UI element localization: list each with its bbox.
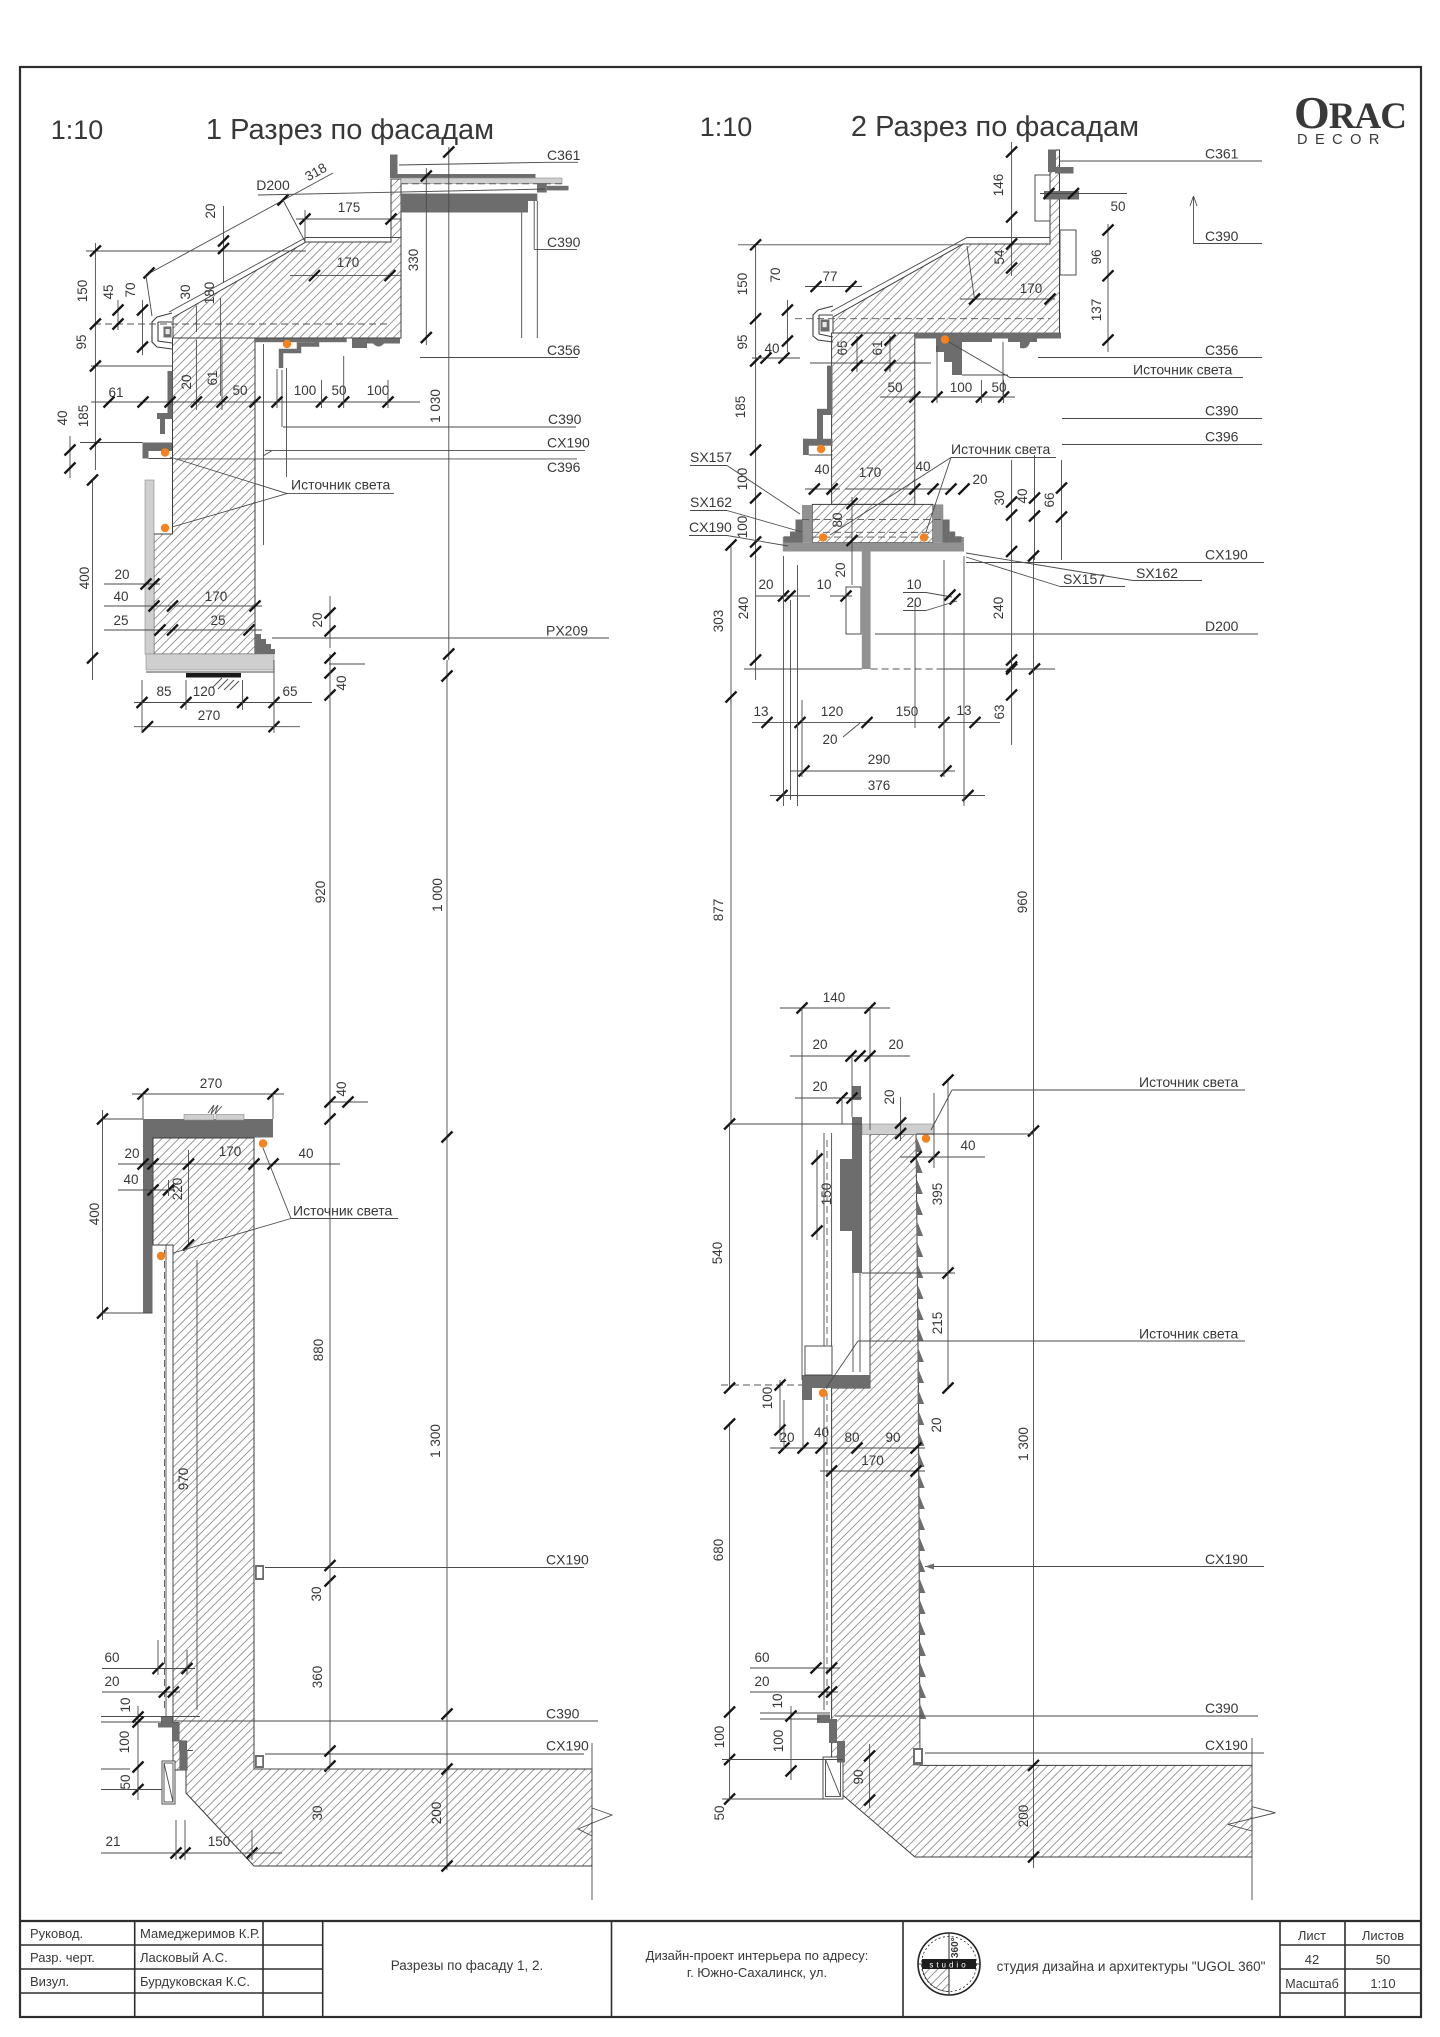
fig2 SX left end blocks xyxy=(796,520,803,543)
svg-text:20: 20 xyxy=(754,1674,769,1689)
svg-text:Источник света: Источник света xyxy=(1133,362,1233,378)
fig1 soffit dark band C390 xyxy=(401,194,528,213)
fig2 crown C361 dark profile xyxy=(1048,150,1056,173)
fig4 dark stub above shelf xyxy=(852,1086,861,1100)
fig1 ext lines soffit dims xyxy=(276,369,278,408)
svg-text:50: 50 xyxy=(991,380,1006,395)
svg-text:20: 20 xyxy=(812,1037,827,1052)
fig1 LED dot on ceiling molding xyxy=(283,340,291,348)
fig4 dim 40 xyxy=(900,1156,985,1158)
svg-text:C356: C356 xyxy=(1205,342,1239,358)
fig4 left panel thin lines xyxy=(823,1133,825,1710)
studio logo circle xyxy=(918,1933,980,1995)
svg-text:63: 63 xyxy=(992,704,1007,719)
fig3 dim 40 left xyxy=(118,1189,175,1191)
fig2 bottom dim chain 13/120/150/13 xyxy=(752,721,1000,723)
fig1 floor slab light gray xyxy=(146,654,274,670)
fig2 dim 240 left xyxy=(755,556,757,680)
svg-text:2 Разрез по фасадам: 2 Разрез по фасадам xyxy=(851,111,1139,143)
fig3 insulation squiggle top xyxy=(208,1105,222,1114)
fig2 coping end bracket xyxy=(813,306,833,342)
svg-text:220: 220 xyxy=(170,1178,185,1201)
studio logo band with studio text xyxy=(922,1959,976,1969)
fig4 wall left edge line xyxy=(869,1135,871,1389)
fig4 right dims 1300/200/960 line xyxy=(1033,1131,1035,1868)
molding C356 fig2 right piece xyxy=(1008,336,1037,348)
svg-text:40: 40 xyxy=(55,410,70,425)
svg-text:100: 100 xyxy=(771,1730,786,1753)
svg-text:42: 42 xyxy=(1305,1952,1319,1967)
svg-text:20: 20 xyxy=(179,374,194,389)
svg-text:20: 20 xyxy=(758,577,773,592)
fig2 hatched wall mass xyxy=(832,333,915,504)
fig3 dim 270 top xyxy=(132,1093,284,1095)
fig4 LED dot under shelf xyxy=(922,1134,930,1142)
dim 40 fig1 xyxy=(104,605,262,607)
svg-text:C396: C396 xyxy=(1205,429,1239,445)
dim 40 fig2 left xyxy=(752,357,800,359)
fig1 LED dot on ledge xyxy=(161,524,169,532)
svg-text:303: 303 xyxy=(711,610,726,633)
svg-text:100: 100 xyxy=(367,383,390,398)
svg-text:40: 40 xyxy=(915,459,930,474)
fig3 right dims 1300/200 xyxy=(446,1137,448,1870)
svg-text:40: 40 xyxy=(814,1425,829,1440)
svg-text:Визул.: Визул. xyxy=(30,1974,69,1989)
svg-text:45: 45 xyxy=(101,284,116,299)
svg-text:66: 66 xyxy=(1042,492,1057,507)
fig1 insulation squiggle xyxy=(212,678,239,690)
svg-text:25: 25 xyxy=(113,613,128,628)
fig1 slope dim 318 xyxy=(148,173,333,274)
svg-text:20: 20 xyxy=(929,1417,944,1432)
svg-text:30: 30 xyxy=(178,284,193,299)
fig4 dark vertical panel xyxy=(852,1117,862,1273)
fig4 dim 140 xyxy=(780,1007,890,1009)
fig1 leader C390 lower xyxy=(283,426,576,428)
fig2 extension line top horizontal xyxy=(738,244,963,246)
svg-text:CX190: CX190 xyxy=(1205,1737,1248,1753)
svg-text:95: 95 xyxy=(74,334,89,349)
svg-text:400: 400 xyxy=(77,567,92,590)
svg-text:студия дизайна и архитектуры ": студия дизайна и архитектуры "UGOL 360" xyxy=(997,1959,1266,1974)
fig2 CX190 channel left wall xyxy=(802,505,812,543)
svg-text:C361: C361 xyxy=(1205,146,1239,162)
svg-text:400: 400 xyxy=(87,1203,102,1226)
svg-text:Источник света: Источник света xyxy=(291,477,391,493)
fig3 bottom dims 21/150 xyxy=(101,1852,282,1854)
fig2 LED dot on left profile xyxy=(817,445,825,453)
fig2 soffit dim chain 50/100/50 xyxy=(880,396,1015,398)
fig2 CX190 channel bottom bar xyxy=(783,543,964,552)
svg-text:C390: C390 xyxy=(1205,1700,1239,1716)
fig2 white niche box xyxy=(846,587,861,634)
fig3 hatched wall and floor mass xyxy=(153,1138,592,1866)
svg-text:150: 150 xyxy=(819,1183,834,1206)
svg-text:60: 60 xyxy=(754,1650,769,1665)
title block row lines left xyxy=(20,1944,323,1946)
fig2 left facade profile steps xyxy=(827,366,833,410)
svg-text:395: 395 xyxy=(930,1183,945,1206)
svg-text:20: 20 xyxy=(310,612,325,627)
dim 45 fig1 xyxy=(117,300,119,330)
fig1 LED ledge line xyxy=(154,533,173,535)
fig1 left facade profile bottom bar C396 xyxy=(143,443,173,452)
fig2 soffit panel lines xyxy=(1002,342,1004,398)
svg-text:100: 100 xyxy=(735,516,750,539)
svg-text:40: 40 xyxy=(113,589,128,604)
molding C356 fig2 left piece xyxy=(936,336,992,375)
fig4 dark 150 block xyxy=(840,1159,852,1231)
fig2 dim 240 right xyxy=(1011,556,1013,680)
dim 170 fig2 mid xyxy=(845,488,950,490)
svg-text:680: 680 xyxy=(711,1539,726,1562)
fig3 light gray pads on cap xyxy=(184,1115,214,1121)
fig3 right rotated dims 30/360/30/880 xyxy=(325,1560,336,1571)
svg-text:Источник света: Источник света xyxy=(1139,1326,1239,1342)
fig4 LED dot at soffit xyxy=(819,1389,827,1397)
svg-text:70: 70 xyxy=(123,282,138,297)
fig1 ext lines for 318 xyxy=(146,276,152,316)
fig2 dim 290 xyxy=(790,770,955,772)
svg-text:C390: C390 xyxy=(548,411,582,427)
svg-text:D200: D200 xyxy=(1205,618,1239,634)
dim 170 fig2 xyxy=(960,298,1055,300)
svg-text:80: 80 xyxy=(830,512,845,527)
svg-text:1 000: 1 000 xyxy=(430,878,445,912)
fig1 left facade profile jog xyxy=(157,413,173,419)
fig1 light gray backing strip left xyxy=(145,480,154,654)
dim 77 fig2 xyxy=(805,286,862,288)
studio logo crosshair xyxy=(948,1933,950,1995)
svg-text:CX190: CX190 xyxy=(546,1552,589,1568)
fig2 SX right end blocks xyxy=(943,520,950,543)
fig1 hatched parapet/roof slab xyxy=(173,179,401,338)
fig1 skirting steps PX209 xyxy=(255,634,275,654)
fig4 dim 540 xyxy=(729,1124,731,1388)
svg-text:Бурдуковская К.С.: Бурдуковская К.С. xyxy=(140,1974,250,1989)
svg-text:CX190: CX190 xyxy=(689,519,732,535)
fig1 leader D200 xyxy=(258,189,545,195)
fig1 D200 end dark block xyxy=(537,183,547,193)
svg-text:90: 90 xyxy=(851,1769,866,1784)
svg-text:13: 13 xyxy=(753,704,768,719)
fig2 hatched roof slab xyxy=(833,150,1060,333)
svg-text:Лист: Лист xyxy=(1298,1928,1326,1943)
svg-text:Дизайн-проект интерьера по адр: Дизайн-проект интерьера по адресу: xyxy=(646,1948,869,1963)
svg-text:50: 50 xyxy=(118,1774,133,1789)
fig1 left wall face line xyxy=(172,348,174,371)
fig1 dashed centerline of coping xyxy=(94,323,388,325)
svg-text:30: 30 xyxy=(309,1586,324,1601)
svg-text:100: 100 xyxy=(117,1731,132,1754)
fig1 dim 400 vertical xyxy=(92,480,94,680)
dim 96 fig2 xyxy=(1107,224,1109,352)
svg-text:Источник света: Источник света xyxy=(293,1203,393,1219)
svg-text:970: 970 xyxy=(176,1468,191,1491)
svg-text:50: 50 xyxy=(232,383,247,398)
svg-text:Масштаб: Масштаб xyxy=(1285,1977,1338,1991)
svg-text:185: 185 xyxy=(76,405,91,428)
fig1 window head box outlines xyxy=(522,201,538,338)
svg-text:240: 240 xyxy=(736,597,751,620)
fig2 dashed construction lines xyxy=(802,519,943,521)
svg-text:170: 170 xyxy=(1020,281,1043,296)
svg-text:studio: studio xyxy=(929,1961,968,1970)
fig1 left facade profile lower strip xyxy=(160,419,165,434)
svg-text:20: 20 xyxy=(906,595,921,610)
svg-text:20: 20 xyxy=(812,1079,827,1094)
fig2 channel stem xyxy=(862,552,871,670)
svg-text:540: 540 xyxy=(710,1242,725,1265)
svg-text:170: 170 xyxy=(337,255,360,270)
fig3 CX190 box bottom xyxy=(255,1755,264,1768)
svg-text:г. Южно-Сахалинск, ул.: г. Южно-Сахалинск, ул. xyxy=(687,1965,827,1980)
svg-text:1 030: 1 030 xyxy=(428,389,443,423)
svg-text:80: 80 xyxy=(844,1430,859,1445)
fig1 coping glazing channel dark square xyxy=(164,327,172,338)
svg-text:140: 140 xyxy=(823,990,846,1005)
svg-text:61: 61 xyxy=(205,370,220,385)
svg-text:920: 920 xyxy=(313,881,328,904)
fig2 ceiling dark band xyxy=(915,333,1061,339)
svg-text:SX162: SX162 xyxy=(1136,565,1178,581)
svg-text:20: 20 xyxy=(882,1089,897,1104)
fig1 ext line y366 xyxy=(91,365,173,367)
svg-text:65: 65 xyxy=(282,684,297,699)
svg-text:40: 40 xyxy=(1015,488,1030,503)
svg-text:150: 150 xyxy=(75,280,90,303)
fig3 top dim chain 20/170/40 xyxy=(118,1163,340,1165)
svg-text:77: 77 xyxy=(822,269,837,284)
svg-text:170: 170 xyxy=(861,1453,884,1468)
svg-text:50: 50 xyxy=(1376,1952,1390,1967)
fig1-fig3 long dim 1000 xyxy=(446,660,448,1137)
title block outline xyxy=(20,1920,1421,1922)
fig2 dim 376 xyxy=(770,795,985,797)
fig3 floor break mark right xyxy=(591,1743,593,1808)
dim 63 fig2 xyxy=(1011,655,1013,745)
svg-text:40: 40 xyxy=(960,1138,975,1153)
dim 146 fig2 xyxy=(1011,142,1013,230)
svg-text:1:10: 1:10 xyxy=(700,112,753,142)
svg-text:150: 150 xyxy=(208,1834,231,1849)
svg-text:20: 20 xyxy=(203,203,218,218)
svg-text:DECOR: DECOR xyxy=(1297,132,1387,148)
fig3 bottom-left dims 60/20/10/100/50 xyxy=(102,1668,195,1670)
fig1 soffit dim chain 50/100/50/100 xyxy=(230,401,420,403)
fig4 dims 20/40/80/90/170 xyxy=(770,1447,925,1449)
fig1 dashed line under shelf xyxy=(401,183,563,185)
fig2 arrow leader C390 box xyxy=(1190,196,1197,244)
fig4 niche white box bottom xyxy=(823,1757,843,1799)
svg-text:Разрезы по фасаду 1, 2.: Разрезы по фасаду 1, 2. xyxy=(391,1958,544,1973)
svg-text:185: 185 xyxy=(733,396,748,419)
svg-text:SX157: SX157 xyxy=(1063,571,1105,587)
svg-text:SX157: SX157 xyxy=(690,449,732,465)
dim 330 fig1 xyxy=(425,168,427,345)
fig1-fig3 long dim 920 xyxy=(329,654,331,1119)
fig3 dim 220 rotated xyxy=(188,1150,190,1245)
fig1 soffit panel lines below ceiling xyxy=(263,344,265,545)
fig2 C390 white box right xyxy=(1060,230,1076,275)
fig2 CX190 channel left wing xyxy=(783,537,802,543)
svg-text:137: 137 xyxy=(1089,299,1104,322)
svg-text:Источник света: Источник света xyxy=(951,441,1051,457)
fig1 left vertical dim chain 150/95/185 xyxy=(94,243,96,470)
fig4 floor break mark right xyxy=(1251,1738,1253,1807)
svg-text:200: 200 xyxy=(429,1802,444,1825)
fig1 leader PX209 xyxy=(272,637,609,639)
dim 170 fig1 top xyxy=(290,275,401,277)
fig2 LED dots on bracket xyxy=(819,533,827,541)
svg-text:70: 70 xyxy=(768,267,783,282)
svg-text:85: 85 xyxy=(156,684,171,699)
fig2 CX190 channel right wall xyxy=(933,504,943,542)
fig1 leader C390 upper xyxy=(533,201,535,249)
svg-text:20: 20 xyxy=(888,1037,903,1052)
fig4 dim 395 xyxy=(947,1080,949,1273)
svg-text:CX190: CX190 xyxy=(1205,1551,1248,1567)
svg-text:10: 10 xyxy=(118,1697,133,1712)
fig1 ext lines bottom xyxy=(141,680,143,733)
svg-text:20: 20 xyxy=(822,732,837,747)
fig1 extension line top horizontal xyxy=(86,250,306,252)
svg-text:270: 270 xyxy=(198,708,221,723)
fig1 bottom dim chain 85/120/65 xyxy=(134,702,312,704)
svg-text:65: 65 xyxy=(835,340,850,355)
fig2 right small dims 30/40/66 xyxy=(1011,460,1013,560)
svg-text:150: 150 xyxy=(735,273,750,296)
fig1 crown C361 dark profile xyxy=(390,155,398,179)
fig1 ext line y442 xyxy=(80,442,143,444)
fig2 dashed centerline of coping xyxy=(795,318,1050,320)
svg-text:10: 10 xyxy=(770,1693,785,1708)
studio logo hatched quadrant xyxy=(922,1964,949,1992)
fig4 dim 150 rotated xyxy=(816,1150,818,1240)
fig4 dim 100 rotated top xyxy=(779,1380,781,1440)
fig1 hatched wall mass xyxy=(154,338,255,654)
fig3 wall panel double line xyxy=(165,1245,167,1716)
svg-text:SX162: SX162 xyxy=(690,494,732,510)
dim 40 fig1 left xyxy=(69,436,71,478)
svg-text:960: 960 xyxy=(1015,891,1030,914)
svg-text:50: 50 xyxy=(331,383,346,398)
fig2 coping glazing channel dark square xyxy=(821,320,830,332)
svg-text:CX190: CX190 xyxy=(546,1738,589,1754)
svg-text:Мамеджеримов К.Р.: Мамеджеримов К.Р. xyxy=(140,1926,260,1941)
fig3 dim 400 xyxy=(102,1110,104,1320)
fig3 LED ledge line xyxy=(153,1244,173,1246)
fig2-fig4 long dim 960 xyxy=(1033,556,1035,1131)
svg-text:20: 20 xyxy=(114,567,129,582)
svg-text:877: 877 xyxy=(711,899,726,922)
fig4 bottom-left dims 60/20/10/100/90 xyxy=(750,1667,840,1669)
svg-text:C356: C356 xyxy=(547,342,581,358)
fig2 left vertical dim chain 150/95/185/100/100 xyxy=(755,245,757,560)
molding C356 left piece fig1 xyxy=(281,341,317,368)
fig2 dim 303 xyxy=(730,545,732,705)
svg-text:40: 40 xyxy=(764,341,779,356)
fig4 dim 680 xyxy=(729,1424,731,1799)
fig1 black sill strip xyxy=(186,673,241,678)
fig1 ceiling dark surface band xyxy=(255,338,347,342)
svg-text:50: 50 xyxy=(887,380,902,395)
svg-text:20: 20 xyxy=(833,562,848,577)
fig4 dims 20/20 top xyxy=(790,1055,910,1057)
fig1 leader C356 xyxy=(420,357,578,359)
svg-text:40: 40 xyxy=(334,1081,349,1096)
svg-text:180: 180 xyxy=(202,282,217,305)
dim 54 fig2 xyxy=(1011,230,1013,276)
svg-text:60: 60 xyxy=(104,1650,119,1665)
fig4 dim 20 second xyxy=(795,1097,862,1099)
fig4 white niche under shelf xyxy=(805,1346,832,1375)
fig2-fig4 long dim 877 xyxy=(730,700,732,1124)
fig4 light gray shelf xyxy=(862,1124,934,1135)
svg-text:C361: C361 xyxy=(547,147,581,163)
svg-text:1:10: 1:10 xyxy=(51,115,104,145)
svg-text:Листов: Листов xyxy=(1362,1928,1404,1943)
svg-text:170: 170 xyxy=(219,1144,242,1159)
svg-text:61: 61 xyxy=(108,385,123,400)
svg-text:95: 95 xyxy=(735,334,750,349)
fig2 crown white box xyxy=(1035,175,1050,221)
dim 70 fig2 xyxy=(786,300,788,352)
fig2 roof outer surface line xyxy=(831,238,1050,312)
fig1 bottom dim 270 xyxy=(134,726,300,728)
fig1 leader CX190 xyxy=(265,450,585,452)
fig1 roof outer surface line xyxy=(169,238,401,313)
svg-text:1:10: 1:10 xyxy=(1370,1976,1395,1991)
svg-text:1 300: 1 300 xyxy=(1016,1427,1031,1461)
fig4 dim 215 xyxy=(947,1273,949,1388)
svg-text:100: 100 xyxy=(950,380,973,395)
svg-text:50: 50 xyxy=(1110,199,1125,214)
svg-text:40: 40 xyxy=(334,675,349,690)
svg-text:880: 880 xyxy=(311,1339,326,1362)
svg-text:1 Разрез по фасадам: 1 Разрез по фасадам xyxy=(206,114,494,146)
fig1 leader C396 xyxy=(175,458,577,460)
fig3 dark cap left leg xyxy=(143,1119,153,1313)
fig4 skirting steps xyxy=(817,1715,830,1724)
svg-text:30: 30 xyxy=(992,490,1007,505)
dim 1030 fig1 xyxy=(448,147,450,660)
fig1 coping end bracket xyxy=(152,313,172,349)
svg-text:CX190: CX190 xyxy=(547,435,590,451)
svg-text:20: 20 xyxy=(779,1430,794,1445)
fig3 dark cap horizontal xyxy=(143,1119,273,1138)
svg-text:Источник света: Источник света xyxy=(1139,1074,1239,1090)
svg-text:Руковод.: Руковод. xyxy=(30,1926,83,1941)
fig4 soffit dark L profile xyxy=(802,1375,870,1388)
fig1 LED dot on lower profile xyxy=(161,448,169,456)
fig4 hatched wall column with toothed right edge xyxy=(832,1135,1252,1858)
fig3 CX190 box mid xyxy=(255,1565,264,1580)
svg-text:360: 360 xyxy=(310,1666,325,1689)
fig2 LED dot on C356 xyxy=(941,335,949,343)
svg-text:146: 146 xyxy=(991,174,1006,197)
svg-text:C390: C390 xyxy=(1205,403,1239,419)
svg-text:290: 290 xyxy=(868,752,891,767)
svg-text:CX190: CX190 xyxy=(1205,547,1248,563)
svg-text:200: 200 xyxy=(1016,1805,1031,1828)
svg-text:40: 40 xyxy=(298,1146,313,1161)
svg-text:C390: C390 xyxy=(546,1706,580,1722)
svg-text:50: 50 xyxy=(712,1805,727,1820)
fig2 ext lines bottom xyxy=(783,556,785,806)
svg-text:20: 20 xyxy=(124,1146,139,1161)
